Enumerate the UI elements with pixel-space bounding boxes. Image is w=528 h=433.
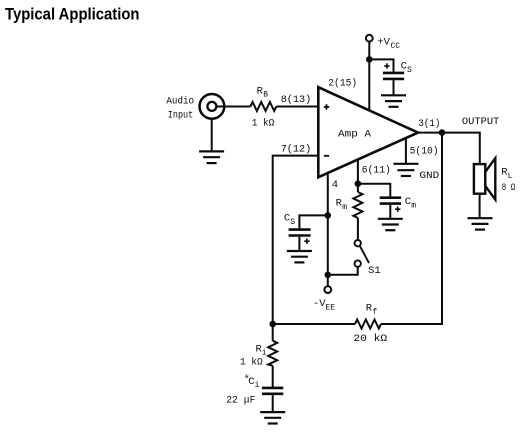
svg-text:S1: S1 bbox=[368, 265, 381, 277]
svg-text:2(15): 2(15) bbox=[328, 78, 357, 90]
resistor Rm bbox=[353, 192, 362, 218]
ground GND at pin 5(10) bbox=[393, 164, 418, 176]
svg-text:C: C bbox=[248, 376, 254, 388]
wire Ci to ground bbox=[272, 395, 274, 412]
wire pin 4 bbox=[327, 174, 329, 286]
node output junction bbox=[439, 129, 446, 136]
svg-text:6(11): 6(11) bbox=[362, 165, 391, 177]
resistor Ri 1 kOhm bbox=[268, 341, 277, 366]
ground under Ci bbox=[260, 412, 285, 423]
svg-text:1 kΩ: 1 kΩ bbox=[240, 357, 263, 369]
resistor RB 1 kOhm bbox=[250, 102, 276, 111]
wire CS top to ground bbox=[393, 80, 395, 95]
speaker RL bbox=[474, 164, 485, 194]
svg-text:L: L bbox=[508, 172, 513, 181]
wire Cm to ground bbox=[389, 205, 391, 219]
capacitor Cm bbox=[380, 198, 401, 204]
svg-text:5(10): 5(10) bbox=[410, 146, 439, 158]
capacitor Ci 22uF bbox=[262, 388, 283, 394]
+VCC terminal bbox=[366, 35, 373, 42]
capacitor CS top (supply bypass) bbox=[383, 73, 404, 79]
svg-text:CC: CC bbox=[391, 42, 401, 51]
ground under Cm bbox=[378, 219, 403, 230]
svg-text:22 μF: 22 μF bbox=[226, 395, 255, 407]
wire feedback bottom row bbox=[273, 323, 355, 325]
-VEE terminal bbox=[324, 286, 331, 293]
wire RB to op-amp + input bbox=[276, 106, 319, 108]
wire speaker to ground bbox=[479, 194, 481, 219]
wire pin 6(11) bbox=[357, 160, 359, 192]
svg-text:GND: GND bbox=[419, 170, 439, 182]
plus sign CS bottom bbox=[304, 239, 309, 244]
wire S1 to VEE node bbox=[328, 267, 358, 275]
ground under jack bbox=[199, 151, 224, 163]
ground under speaker bbox=[468, 218, 493, 229]
capacitor CS bottom (negative supply bypass) bbox=[289, 230, 311, 236]
svg-text:S: S bbox=[290, 218, 295, 227]
wire pin6 junction to Cm bbox=[358, 184, 390, 197]
svg-text:20 kΩ: 20 kΩ bbox=[353, 333, 387, 345]
audio input jack J1 bbox=[200, 94, 225, 119]
op-amp U1 Amp A bbox=[318, 87, 418, 177]
node pin6 junction bbox=[355, 180, 362, 187]
svg-text:8(13): 8(13) bbox=[281, 94, 312, 106]
svg-text:i: i bbox=[255, 381, 260, 390]
svg-text:C: C bbox=[284, 213, 290, 225]
wire Rm to switch bbox=[357, 218, 359, 241]
plus sign Cm bbox=[395, 207, 400, 212]
svg-text:Typical Application: Typical Application bbox=[5, 5, 140, 24]
wire pin4 junction to CS bottom bbox=[299, 215, 327, 229]
svg-text:m: m bbox=[342, 203, 347, 212]
wire feedback junction to Ri bbox=[272, 324, 274, 341]
wire jack to ground bbox=[211, 119, 213, 152]
svg-text:8 Ω: 8 Ω bbox=[502, 182, 516, 194]
svg-text:Audio: Audio bbox=[166, 95, 194, 107]
svg-text:B: B bbox=[263, 91, 268, 100]
svg-text:C: C bbox=[405, 196, 411, 208]
svg-text:-V: -V bbox=[313, 298, 326, 310]
ground under CS bottom bbox=[287, 251, 312, 262]
svg-text:4: 4 bbox=[332, 179, 338, 191]
resistor Rf 20 kOhm bbox=[355, 320, 381, 329]
wire output pin 3(1) bbox=[418, 133, 479, 165]
wire VCC to op-amp top bbox=[368, 42, 370, 110]
wire CS bottom to ground bbox=[298, 237, 300, 251]
svg-text:EE: EE bbox=[325, 304, 335, 313]
wire pin 7(12) inverting input bbox=[273, 156, 319, 324]
svg-text:Amp A: Amp A bbox=[338, 129, 372, 141]
wire VCC junction to CS bbox=[369, 59, 393, 73]
svg-text:7(12): 7(12) bbox=[281, 144, 312, 156]
plus sign at noninverting input bbox=[324, 104, 329, 109]
svg-text:+V: +V bbox=[377, 37, 390, 49]
svg-text:OUTPUT: OUTPUT bbox=[462, 116, 499, 128]
wire jack to RB bbox=[216, 106, 250, 108]
svg-text:C: C bbox=[401, 61, 407, 73]
svg-text:m: m bbox=[411, 202, 416, 211]
node feedback junction bbox=[269, 321, 276, 328]
node pin4 VEE junction bbox=[325, 272, 332, 279]
svg-text:f: f bbox=[372, 308, 377, 317]
svg-text:S: S bbox=[407, 66, 412, 75]
svg-text:Input: Input bbox=[168, 109, 193, 121]
node VCC junction bbox=[366, 56, 373, 63]
wire pin 5(10) to GND bbox=[405, 138, 407, 164]
svg-text:3(1): 3(1) bbox=[418, 118, 440, 130]
ground under CS top bbox=[381, 95, 406, 107]
wire Ri to Ci bbox=[272, 366, 274, 388]
minus sign at inverting input bbox=[324, 155, 329, 157]
plus sign CS top bbox=[384, 63, 389, 68]
junction dots bbox=[269, 56, 445, 327]
wire feedback vertical from output bbox=[381, 133, 442, 324]
switch S1 bbox=[355, 240, 361, 246]
svg-text:1 kΩ: 1 kΩ bbox=[252, 118, 275, 130]
node pin4 CS junction bbox=[325, 212, 332, 219]
